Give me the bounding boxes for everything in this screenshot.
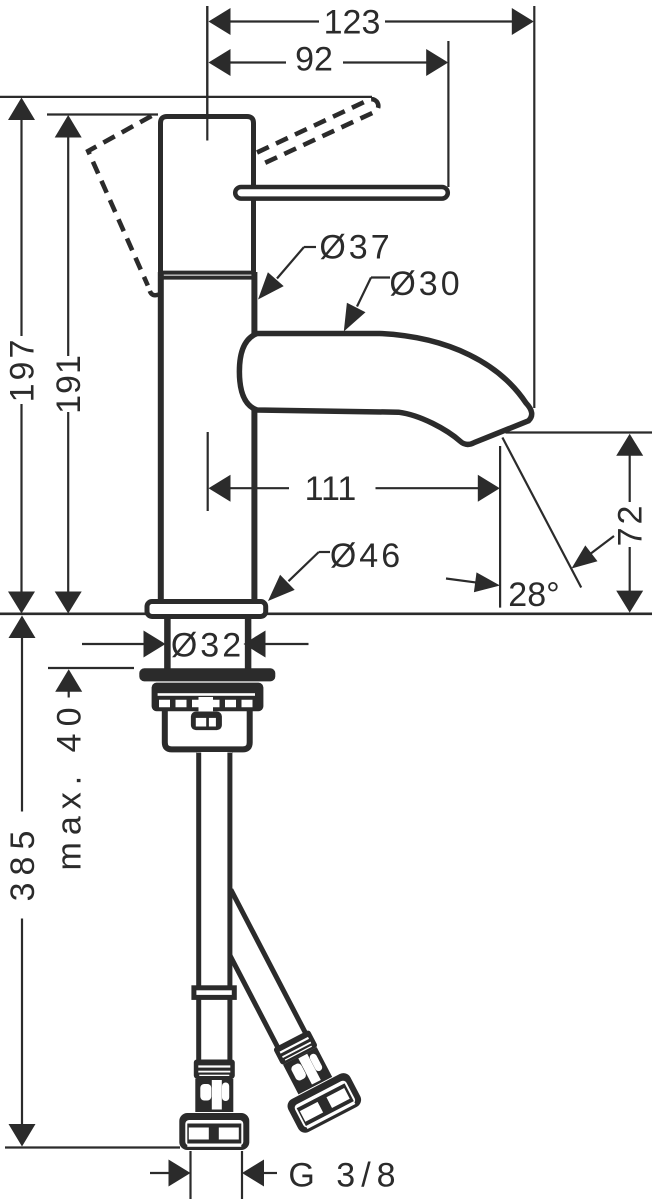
- svg-text:Ø46: Ø46: [330, 537, 403, 575]
- svg-text:197: 197: [4, 337, 42, 403]
- svg-text:72: 72: [612, 503, 650, 547]
- svg-text:Ø30: Ø30: [389, 265, 462, 303]
- svg-text:Ø32: Ø32: [171, 627, 244, 665]
- svg-text:191: 191: [50, 354, 88, 414]
- svg-text:385: 385: [4, 824, 42, 902]
- svg-text:123: 123: [324, 4, 381, 42]
- svg-text:G 3/8: G 3/8: [288, 1157, 401, 1195]
- svg-text:max. 40: max. 40: [51, 701, 89, 871]
- svg-text:92: 92: [295, 41, 333, 79]
- svg-text:111: 111: [305, 470, 357, 508]
- svg-text:28°: 28°: [508, 576, 559, 614]
- svg-text:Ø37: Ø37: [319, 229, 392, 267]
